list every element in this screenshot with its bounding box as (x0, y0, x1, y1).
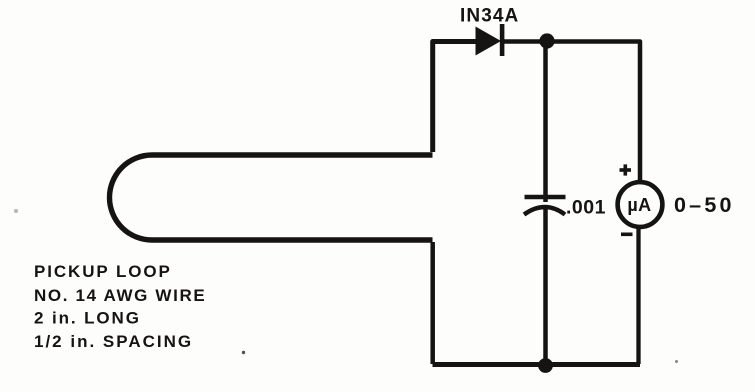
svg-text:IN34A: IN34A (460, 6, 519, 27)
svg-text:.001: .001 (566, 197, 606, 219)
svg-text:µA: µA (627, 195, 651, 215)
svg-text:0–50: 0–50 (674, 193, 735, 217)
svg-text:2 in. LONG: 2 in. LONG (34, 309, 141, 328)
svg-text:PICKUP LOOP: PICKUP LOOP (34, 262, 172, 281)
svg-text:1/2 in. SPACING: 1/2 in. SPACING (34, 332, 193, 351)
svg-text:NO. 14 AWG WIRE: NO. 14 AWG WIRE (34, 286, 206, 305)
